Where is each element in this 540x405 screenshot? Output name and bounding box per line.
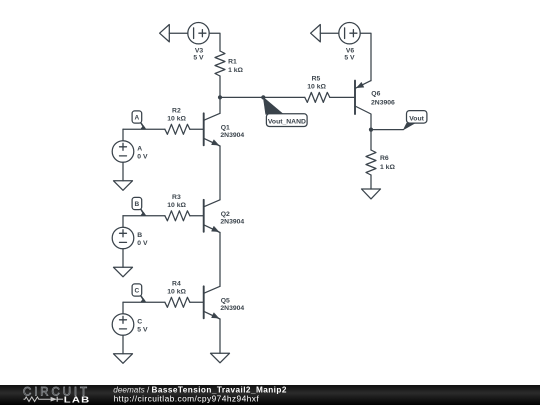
svg-text:C: C [135,288,140,295]
svg-text:R1: R1 [228,59,237,66]
label R2 10 kOhm [167,107,186,122]
resistor R3 [165,211,204,221]
voltage source V6 [339,23,360,44]
wire Q5 emitter to ground [219,319,221,353]
voltage source V3 [188,23,209,44]
junction node R1-rail [218,95,222,99]
CircuitLab logo resistor-diode drawing [24,397,64,402]
ground under R6 [362,189,381,199]
voltage source A [112,129,134,181]
terminal arrow of V3 [160,25,170,42]
label flag A [135,115,140,122]
voltage source C [112,302,134,354]
label Vout [409,116,424,123]
flag B [132,197,146,215]
svg-text:R5: R5 [312,75,321,82]
svg-text:10 kΩ: 10 kΩ [307,84,326,91]
svg-text:Q1: Q1 [221,124,230,131]
label R3 10 kOhm [167,194,186,209]
svg-text:B: B [137,232,142,239]
wire V6 output down [360,33,371,80]
svg-text:B: B [135,201,140,208]
svg-text:R6: R6 [380,155,389,162]
flag A [132,111,146,129]
label R1 1 kOhm [228,59,243,74]
footer url [114,393,260,403]
svg-text:Vout: Vout [409,116,424,123]
ground under Q5 [211,353,230,363]
transistor Q6 [355,81,371,130]
ground under source C [114,354,133,364]
label Q1 2N3904 [220,124,244,139]
CircuitLab logo word CIRCUIT [23,386,90,398]
label Q2 2N3904 [220,211,244,226]
svg-text:LAB: LAB [64,396,91,405]
svg-text:2N3904: 2N3904 [220,305,244,312]
junction node Vout [369,128,373,132]
wire V3 arrow to circle [169,32,188,34]
footer schematic title [113,385,287,394]
terminal arrow of V6 [311,25,321,42]
transistor Q1 [204,113,220,146]
transistor Q2 [204,200,220,233]
svg-text:1 kΩ: 1 kΩ [228,67,243,74]
svg-text:1 kΩ: 1 kΩ [380,164,395,171]
wire Q1 emitter to Q2 collector [219,146,221,200]
svg-text:A: A [135,115,140,122]
label R6 1 kOhm [380,155,395,171]
svg-text:R2: R2 [172,107,181,114]
svg-text:Q6: Q6 [371,90,380,97]
transistor Q5 [204,286,220,319]
resistor R6 [366,150,376,189]
ground under source B [114,267,133,277]
svg-text:Q2: Q2 [221,211,230,218]
wire row B [123,215,165,217]
svg-text:0 V: 0 V [137,240,148,247]
svg-text:2N3904: 2N3904 [220,132,244,139]
wire Q2 emitter to Q5 collector [219,233,221,287]
svg-text:http://circuitlab.com/cpy974hz: http://circuitlab.com/cpy974hz94hxf [114,393,260,403]
label flag B [135,201,140,208]
wire Vout tap [371,129,403,131]
ground under source A [114,181,133,191]
svg-text:10 kΩ: 10 kΩ [167,116,186,123]
voltage source B [112,216,134,267]
svg-text:10 kΩ: 10 kΩ [167,289,186,296]
svg-text:R3: R3 [172,194,181,201]
wire row A [123,128,165,130]
svg-text:2N3904: 2N3904 [220,219,244,226]
resistor R2 [165,124,204,134]
label Q5 2N3904 [220,297,244,312]
svg-text:Q5: Q5 [221,297,230,304]
resistor R4 [165,297,204,307]
wire V6 arrow to circle [320,32,339,34]
svg-text:Vout_NAND: Vout_NAND [268,118,306,125]
label source A value [137,146,148,161]
CircuitLab logo word LAB [64,396,91,405]
svg-text:C: C [137,319,142,326]
flag C [132,284,146,302]
wire Q1 collector to rail [219,97,221,113]
svg-text:5 V: 5 V [344,54,355,61]
flag Vout_NAND [263,97,307,126]
svg-text:R4: R4 [172,280,181,287]
flag Vout [403,111,427,130]
label V3 5 V [193,48,204,62]
svg-text:10 kΩ: 10 kΩ [167,202,186,209]
resistor R1 [215,51,225,97]
wire Q6 collector to R6 [370,130,372,150]
label source B value [137,232,148,247]
label flag C [135,288,140,295]
svg-text:5 V: 5 V [137,326,148,333]
label Q6 2N3906 [371,90,395,106]
resistor R5 [305,92,355,102]
svg-text:0 V: 0 V [137,153,148,160]
wire row C [123,301,165,303]
svg-text:5 V: 5 V [193,54,204,61]
svg-text:2N3906: 2N3906 [371,99,395,106]
label Vout_NAND [268,118,306,125]
label source C value [137,319,148,334]
junction node Vout_NAND tap [261,95,265,99]
label V6 5 V [344,48,355,62]
label R5 10 kOhm [307,75,326,90]
label R4 10 kOhm [167,280,186,295]
footer bar [0,385,540,405]
wire V3 output down [209,33,220,51]
wire node rail Vout_NAND [220,96,305,98]
svg-text:A: A [137,146,142,153]
